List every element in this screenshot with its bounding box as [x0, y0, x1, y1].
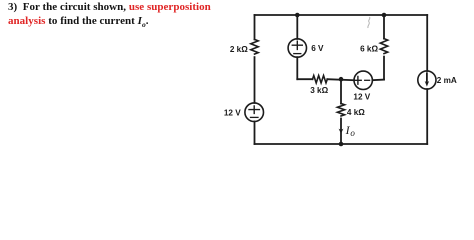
svg-text:6 V: 6 V	[311, 44, 324, 53]
svg-text:2 mA: 2 mA	[437, 76, 457, 85]
svg-text:4 kΩ: 4 kΩ	[347, 108, 365, 117]
svg-text:12 V: 12 V	[224, 108, 241, 117]
svg-text:12 V: 12 V	[353, 92, 370, 101]
svg-text:6 kΩ: 6 kΩ	[360, 44, 378, 53]
svg-text:Io: Io	[345, 123, 356, 138]
svg-text:3 kΩ: 3 kΩ	[310, 86, 328, 95]
svg-text:2 kΩ: 2 kΩ	[230, 45, 248, 54]
